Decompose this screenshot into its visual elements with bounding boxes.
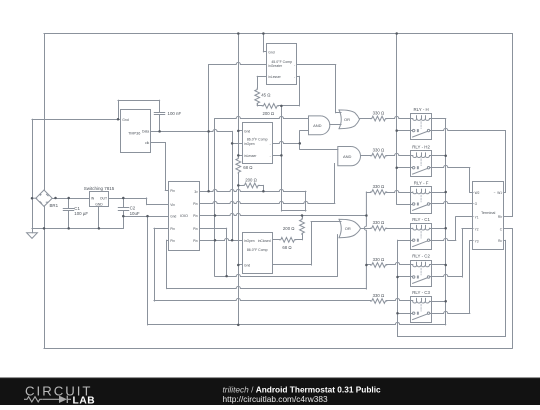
svg-text:Pin: Pin bbox=[193, 202, 198, 206]
svg-text:-: - bbox=[270, 142, 271, 146]
svg-text:Pin: Pin bbox=[193, 239, 198, 243]
svg-text:-: - bbox=[270, 154, 271, 158]
svg-text:45 Ω: 45 Ω bbox=[261, 93, 271, 98]
svg-text:330 Ω: 330 Ω bbox=[373, 184, 385, 189]
svg-text:Gnd: Gnd bbox=[244, 264, 250, 268]
svg-text:Y3: Y3 bbox=[475, 240, 479, 244]
svg-text:Y1: Y1 bbox=[475, 216, 479, 220]
svg-text:clk: clk bbox=[145, 141, 149, 145]
svg-text:68 Ω: 68 Ω bbox=[243, 165, 253, 170]
svg-text:Pin: Pin bbox=[170, 189, 175, 193]
svg-text:200 Ω: 200 Ω bbox=[263, 111, 275, 116]
svg-text:BR1: BR1 bbox=[50, 203, 59, 208]
svg-text:RLY - C1: RLY - C1 bbox=[412, 217, 430, 222]
svg-text:inOpen: inOpen bbox=[244, 239, 255, 243]
svg-text:http://circuitlab.com/c4rw383: http://circuitlab.com/c4rw383 bbox=[223, 394, 329, 404]
svg-text:68 Ω: 68 Ω bbox=[282, 245, 292, 250]
svg-text:Terminal: Terminal bbox=[481, 211, 496, 215]
svg-text:inGreater: inGreater bbox=[268, 64, 283, 68]
svg-text:100 nF: 100 nF bbox=[168, 111, 182, 116]
svg-text:3v: 3v bbox=[194, 190, 198, 194]
svg-text:330 Ω: 330 Ω bbox=[373, 220, 385, 225]
svg-text:-: - bbox=[294, 64, 295, 68]
svg-text:inLesser: inLesser bbox=[244, 154, 257, 158]
svg-text:Data: Data bbox=[142, 130, 149, 134]
svg-text:Pin: Pin bbox=[170, 227, 175, 231]
svg-text:86.0°F Comp: 86.0°F Comp bbox=[247, 248, 268, 252]
svg-text:330 Ω: 330 Ω bbox=[373, 257, 385, 262]
svg-text:trilitech / Android Thermostat: trilitech / Android Thermostat 0.31 Publ… bbox=[223, 385, 382, 395]
svg-text:330 Ω: 330 Ω bbox=[373, 110, 385, 115]
svg-text:Vin: Vin bbox=[170, 203, 175, 207]
svg-text:IOIO: IOIO bbox=[180, 214, 188, 218]
svg-text:~: ~ bbox=[494, 191, 496, 195]
svg-text:Pin: Pin bbox=[193, 214, 198, 218]
svg-text:Gnd: Gnd bbox=[170, 215, 176, 219]
svg-text:Gnd: Gnd bbox=[122, 118, 129, 122]
svg-text:330 Ω: 330 Ω bbox=[373, 148, 385, 153]
svg-text:RLY - H2: RLY - H2 bbox=[412, 144, 430, 149]
svg-text:RLY - C2: RLY - C2 bbox=[412, 254, 430, 259]
svg-text:Pin: Pin bbox=[170, 239, 175, 243]
svg-text:TMP36: TMP36 bbox=[128, 132, 140, 136]
svg-text:RLY - C3: RLY - C3 bbox=[412, 290, 430, 295]
svg-text:OUT: OUT bbox=[100, 197, 107, 201]
svg-text:Switching 7815: Switching 7815 bbox=[84, 186, 115, 191]
svg-text:Gnd: Gnd bbox=[268, 51, 274, 55]
svg-text:100 µF: 100 µF bbox=[74, 211, 88, 216]
svg-text:IN: IN bbox=[91, 197, 95, 201]
svg-text:C2: C2 bbox=[130, 206, 136, 211]
svg-text:-: - bbox=[294, 75, 295, 79]
svg-text:10uF: 10uF bbox=[130, 211, 140, 216]
svg-text:GND: GND bbox=[95, 203, 103, 207]
svg-text:AND: AND bbox=[343, 154, 352, 159]
svg-text:W2: W2 bbox=[475, 191, 480, 195]
svg-text:LAB: LAB bbox=[73, 396, 96, 405]
svg-text:OR: OR bbox=[344, 117, 350, 122]
svg-text:inClosed: inClosed bbox=[258, 239, 271, 243]
svg-text:330 Ω: 330 Ω bbox=[373, 293, 385, 298]
svg-text:RLY - F: RLY - F bbox=[414, 181, 429, 186]
svg-text:OR: OR bbox=[345, 226, 351, 231]
svg-text:W1: W1 bbox=[497, 191, 502, 195]
svg-text:Pin: Pin bbox=[193, 227, 198, 231]
svg-text:RLY - H: RLY - H bbox=[413, 107, 428, 112]
svg-text:inLesser: inLesser bbox=[268, 75, 281, 79]
svg-text:200 Ω: 200 Ω bbox=[245, 177, 257, 182]
svg-text:Y2: Y2 bbox=[475, 228, 479, 232]
svg-text:AND: AND bbox=[313, 123, 322, 128]
svg-text:Rc: Rc bbox=[498, 239, 502, 243]
svg-text:inOpen: inOpen bbox=[244, 142, 255, 146]
svg-text:86.0°F Comp: 86.0°F Comp bbox=[247, 138, 268, 142]
svg-text:Rh: Rh bbox=[498, 215, 502, 219]
svg-text:200 Ω: 200 Ω bbox=[283, 226, 295, 231]
svg-text:Gnd: Gnd bbox=[244, 130, 250, 134]
